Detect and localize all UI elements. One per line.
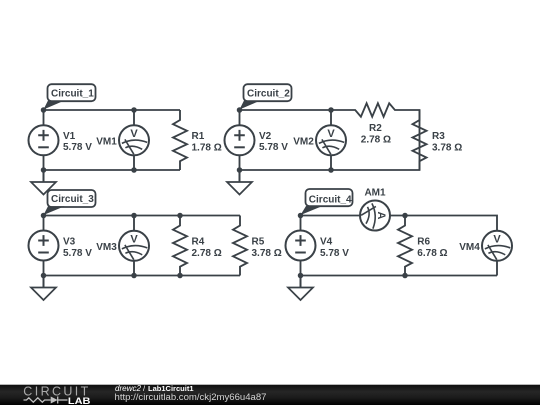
- svg-text:2.78 Ω: 2.78 Ω: [361, 134, 391, 145]
- svg-text:V: V: [130, 128, 138, 140]
- svg-text:R5: R5: [252, 237, 265, 248]
- svg-text:Circuit_1: Circuit_1: [51, 88, 94, 99]
- svg-text:VM2: VM2: [293, 137, 314, 148]
- svg-text:V: V: [327, 128, 335, 140]
- svg-text:6.78 Ω: 6.78 Ω: [417, 248, 447, 259]
- svg-text:V4: V4: [320, 237, 333, 248]
- svg-text:5.78 V: 5.78 V: [259, 142, 288, 153]
- svg-text:http://circuitlab.com/ckj2my66: http://circuitlab.com/ckj2my66u4a87: [115, 392, 267, 402]
- svg-text:LAB: LAB: [68, 396, 91, 405]
- svg-text:V: V: [130, 234, 138, 246]
- svg-text:Circuit_2: Circuit_2: [247, 88, 290, 99]
- svg-text:R4: R4: [192, 237, 205, 248]
- svg-text:Circuit_4: Circuit_4: [309, 194, 352, 205]
- svg-text:R2: R2: [369, 123, 382, 134]
- svg-text:VM1: VM1: [96, 137, 117, 148]
- svg-text:Circuit_3: Circuit_3: [51, 194, 94, 205]
- svg-text:V3: V3: [63, 237, 76, 248]
- svg-text:VM3: VM3: [96, 242, 117, 253]
- svg-text:AM1: AM1: [364, 188, 386, 199]
- svg-text:2.78 Ω: 2.78 Ω: [192, 248, 222, 259]
- svg-text:V1: V1: [63, 131, 76, 142]
- svg-text:3.78 Ω: 3.78 Ω: [252, 248, 282, 259]
- svg-text:5.78 V: 5.78 V: [63, 248, 92, 259]
- svg-text:R1: R1: [192, 131, 205, 142]
- svg-text:V2: V2: [259, 131, 272, 142]
- svg-text:5.78 V: 5.78 V: [63, 142, 92, 153]
- svg-text:3.78 Ω: 3.78 Ω: [432, 143, 462, 154]
- svg-text:A: A: [375, 212, 387, 220]
- svg-text:V: V: [493, 234, 501, 246]
- svg-text:5.78 V: 5.78 V: [320, 248, 349, 259]
- svg-text:R6: R6: [417, 237, 430, 248]
- svg-text:1.78 Ω: 1.78 Ω: [192, 143, 222, 154]
- svg-text:R3: R3: [432, 131, 445, 142]
- svg-text:VM4: VM4: [459, 242, 480, 253]
